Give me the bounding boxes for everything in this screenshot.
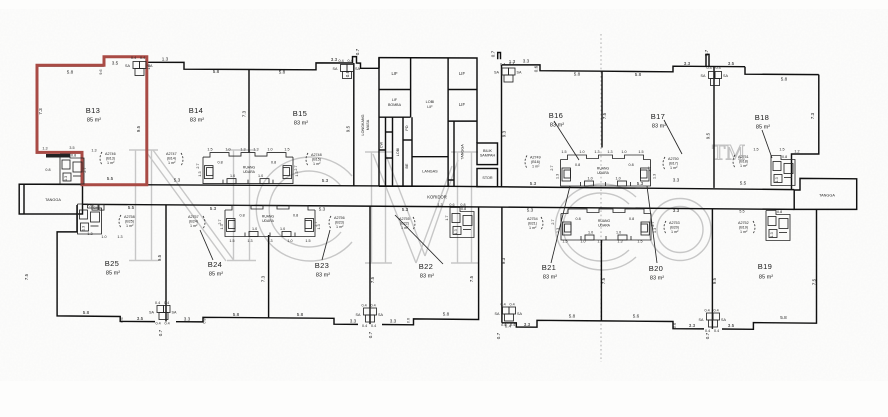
svg-text:5.8: 5.8 xyxy=(67,70,74,75)
label A2749 (B16) xyxy=(525,156,541,169)
right stair TANGGA xyxy=(794,178,857,209)
svg-text:9.5: 9.5 xyxy=(157,254,162,261)
svg-text:5.8: 5.8 xyxy=(233,312,240,317)
svg-text:9.5: 9.5 xyxy=(712,277,717,284)
leader B22 xyxy=(395,215,443,264)
svg-text:1 m²: 1 m² xyxy=(740,230,748,234)
leader B24 xyxy=(200,230,213,260)
core top outline xyxy=(379,58,477,143)
svg-text:5.8: 5.8 xyxy=(781,77,788,82)
svg-text:A2754: A2754 xyxy=(527,217,538,221)
svg-text:5.3: 5.3 xyxy=(322,178,329,183)
toilet cluster B25 xyxy=(78,204,102,234)
svg-text:1.3: 1.3 xyxy=(240,148,245,152)
svg-text:0.7: 0.7 xyxy=(491,50,496,57)
svg-text:1.3: 1.3 xyxy=(594,150,599,154)
SA shaft bottom wall B23/B22 xyxy=(356,304,384,329)
svg-text:UDARA: UDARA xyxy=(262,219,275,223)
svg-text:85 m²: 85 m² xyxy=(759,275,773,281)
svg-text:(B13): (B13) xyxy=(106,157,115,161)
svg-text:1.5: 1.5 xyxy=(779,148,784,152)
svg-text:83 m²: 83 m² xyxy=(294,121,308,127)
corridor top line xyxy=(20,184,794,189)
svg-text:1.0: 1.0 xyxy=(287,239,292,243)
svg-text:(B20): (B20) xyxy=(670,226,679,230)
leader lines xyxy=(200,120,772,264)
svg-text:(B24): (B24) xyxy=(189,220,198,224)
svg-text:0.4: 0.4 xyxy=(505,323,512,328)
svg-text:0.8: 0.8 xyxy=(45,168,50,172)
svg-text:1 m²: 1 m² xyxy=(168,161,176,165)
svg-text:5.8: 5.8 xyxy=(443,312,450,317)
toilet cluster shared B14-B15 xyxy=(198,153,299,184)
leader B17 xyxy=(664,120,682,154)
B17/B18 stub xyxy=(706,54,709,66)
svg-text:9.3: 9.3 xyxy=(502,130,507,137)
svg-text:3.3: 3.3 xyxy=(684,61,691,66)
toilet cluster B19 xyxy=(766,210,790,240)
door step B13 xyxy=(46,154,70,158)
svg-text:BOMBA: BOMBA xyxy=(388,103,402,107)
svg-text:A2749: A2749 xyxy=(530,156,541,160)
label A2753 (B20) xyxy=(664,221,680,234)
svg-text:1.0: 1.0 xyxy=(101,235,106,239)
svg-text:LOBI: LOBI xyxy=(396,148,400,156)
svg-text:0.8: 0.8 xyxy=(203,318,207,323)
svg-text:LIF: LIF xyxy=(459,71,465,76)
svg-text:5.3: 5.3 xyxy=(402,207,409,212)
svg-text:3.5: 3.5 xyxy=(69,146,74,150)
svg-text:0.8: 0.8 xyxy=(460,203,465,207)
svg-text:2.7: 2.7 xyxy=(83,167,87,172)
B23/B22 wall xyxy=(369,206,371,324)
svg-text:0.6: 0.6 xyxy=(407,318,411,323)
svg-text:9.5: 9.5 xyxy=(346,125,351,132)
wall B16/B17 xyxy=(601,71,603,147)
svg-text:(B16): (B16) xyxy=(531,160,540,164)
label A2752 (B19) xyxy=(738,221,755,234)
watermark letter o xyxy=(649,199,711,261)
svg-text:83 m²: 83 m² xyxy=(652,124,666,130)
svg-text:A2750: A2750 xyxy=(668,157,679,161)
SA shaft bottom wall B25/B24 xyxy=(149,301,177,326)
svg-text:1.0: 1.0 xyxy=(225,148,230,152)
svg-text:1.3: 1.3 xyxy=(617,240,622,244)
svg-text:2.7: 2.7 xyxy=(314,221,318,226)
leader B18 xyxy=(762,130,772,158)
svg-text:1.3: 1.3 xyxy=(607,150,612,154)
toilet cluster B13 xyxy=(60,154,84,184)
svg-text:1.5: 1.5 xyxy=(561,150,566,154)
svg-text:3.5: 3.5 xyxy=(137,316,144,321)
svg-text:3.3: 3.3 xyxy=(689,323,696,328)
svg-text:1.5: 1.5 xyxy=(638,150,643,154)
svg-text:UDARA: UDARA xyxy=(243,170,256,174)
svg-text:A2757: A2757 xyxy=(188,215,199,219)
leader B23 xyxy=(322,230,330,260)
svg-text:1.5: 1.5 xyxy=(637,240,642,244)
watermark letter C of Co xyxy=(555,184,636,270)
SA shaft bottom wall B20/B19 xyxy=(699,309,727,334)
svg-text:BE: BE xyxy=(405,163,409,168)
svg-text:5.5: 5.5 xyxy=(107,176,114,181)
svg-text:(B17): (B17) xyxy=(669,162,678,166)
svg-text:3.3: 3.3 xyxy=(523,58,530,63)
left stair TANGGA xyxy=(19,184,82,214)
scan noise texture xyxy=(0,40,888,350)
svg-text:1.5: 1.5 xyxy=(305,239,310,243)
svg-text:1.3: 1.3 xyxy=(117,235,122,239)
wall B17/B18 xyxy=(713,67,715,188)
svg-text:1.3: 1.3 xyxy=(87,232,92,236)
svg-text:B21: B21 xyxy=(542,263,556,272)
svg-text:1.3: 1.3 xyxy=(597,240,602,244)
svg-text:1 m²: 1 m² xyxy=(532,165,540,169)
svg-text:3.3: 3.3 xyxy=(673,178,680,183)
svg-text:0.7: 0.7 xyxy=(496,332,501,339)
svg-text:3.3: 3.3 xyxy=(673,208,680,213)
watermark NCM Co TM xyxy=(129,140,745,270)
svg-text:1.3: 1.3 xyxy=(162,56,169,61)
svg-text:3.3: 3.3 xyxy=(331,57,338,62)
svg-text:1.3: 1.3 xyxy=(42,147,47,151)
SA shaft top wall B16 xyxy=(494,63,522,83)
svg-text:0.6: 0.6 xyxy=(345,70,350,77)
svg-text:5.8: 5.8 xyxy=(213,69,220,74)
svg-text:TANGGA: TANGGA xyxy=(461,144,465,160)
svg-text:5.8: 5.8 xyxy=(780,315,787,320)
svg-text:1.3: 1.3 xyxy=(247,239,252,243)
svg-text:1 m²: 1 m² xyxy=(126,224,134,228)
svg-text:TANGGA: TANGGA xyxy=(819,194,835,198)
svg-text:1.3: 1.3 xyxy=(267,239,272,243)
svg-text:0.7: 0.7 xyxy=(368,331,373,338)
svg-text:3.3: 3.3 xyxy=(524,322,531,327)
svg-text:1.3: 1.3 xyxy=(437,203,442,207)
B25 outline xyxy=(57,205,155,322)
leader B21 xyxy=(551,186,570,263)
label A2747 (B14) xyxy=(166,152,183,166)
svg-text:RUANG: RUANG xyxy=(243,166,256,170)
B17 top outline xyxy=(602,66,745,72)
svg-text:UDARA: UDARA xyxy=(597,171,610,175)
svg-text:5.3: 5.3 xyxy=(530,181,537,186)
svg-text:1 m²: 1 m² xyxy=(670,166,678,170)
svg-text:LANGAS: LANGAS xyxy=(422,170,438,174)
svg-text:7.5: 7.5 xyxy=(24,273,29,280)
svg-text:1.5: 1.5 xyxy=(753,148,758,152)
label A2751 (B18) xyxy=(733,155,749,168)
svg-text:7.3: 7.3 xyxy=(810,112,815,119)
svg-text:1 m²: 1 m² xyxy=(671,230,679,234)
scan fold crease line xyxy=(600,34,602,362)
label A2750 (B17) xyxy=(663,157,679,170)
toilet cluster shared B16-B17 xyxy=(556,155,657,186)
svg-text:RUANG: RUANG xyxy=(598,219,611,223)
svg-text:2.7: 2.7 xyxy=(551,219,555,224)
wall B15 right xyxy=(353,63,355,186)
B24 bottom xyxy=(176,317,358,324)
svg-text:TANGGA: TANGGA xyxy=(45,198,61,202)
B21 bottom left step xyxy=(502,320,602,327)
svg-text:LIF: LIF xyxy=(427,105,433,109)
label A2758 (B25) xyxy=(119,215,135,228)
svg-text:B19: B19 xyxy=(758,262,772,271)
svg-text:B20: B20 xyxy=(649,264,663,273)
svg-text:1 m²: 1 m² xyxy=(336,225,344,229)
svg-text:(B23): (B23) xyxy=(335,221,344,225)
svg-text:0.7: 0.7 xyxy=(705,332,710,339)
svg-text:85 m²: 85 m² xyxy=(756,125,770,131)
svg-text:A2756: A2756 xyxy=(334,216,345,220)
svg-text:SAMPAH: SAMPAH xyxy=(480,154,496,158)
svg-text:1.6: 1.6 xyxy=(147,64,151,69)
svg-text:9.5: 9.5 xyxy=(706,132,711,139)
SA shaft top wall B13/B14 xyxy=(125,56,153,76)
B18 right edge xyxy=(792,75,819,190)
wall B16 left xyxy=(501,65,503,187)
svg-text:1.2: 1.2 xyxy=(794,150,799,154)
svg-text:CH: CH xyxy=(93,206,99,210)
svg-text:2.7: 2.7 xyxy=(550,165,554,170)
svg-text:1.3: 1.3 xyxy=(91,149,96,153)
svg-text:(B19): (B19) xyxy=(739,226,748,230)
label A2754 (B21) xyxy=(527,217,543,230)
corridor bottom line xyxy=(83,204,795,209)
label A2756 (B23) xyxy=(329,216,345,229)
watermark letter N xyxy=(129,150,256,261)
watermark letter M xyxy=(365,152,478,263)
svg-text:B25: B25 xyxy=(105,259,119,268)
svg-text:(B25): (B25) xyxy=(125,220,134,224)
svg-text:5.6: 5.6 xyxy=(633,314,640,319)
svg-text:UDARA: UDARA xyxy=(598,224,611,228)
svg-text:5.8: 5.8 xyxy=(569,313,576,318)
bilik sampah / stor boxes xyxy=(477,143,498,187)
svg-text:5.3: 5.3 xyxy=(319,207,326,212)
B21/B20 wall xyxy=(600,240,602,321)
svg-text:CW: CW xyxy=(380,141,384,148)
svg-text:3.3: 3.3 xyxy=(184,316,191,321)
svg-text:A2758: A2758 xyxy=(124,215,135,219)
top outline B14-B15 xyxy=(147,57,380,70)
SA shaft top wall B15 xyxy=(333,59,361,79)
svg-text:7.3: 7.3 xyxy=(242,110,247,117)
svg-text:9.6: 9.6 xyxy=(99,69,103,74)
B22 bottom xyxy=(382,207,479,325)
svg-text:B17: B17 xyxy=(651,112,665,121)
svg-text:A2752: A2752 xyxy=(738,221,749,225)
svg-text:LIF: LIF xyxy=(459,102,465,107)
svg-text:1.5: 1.5 xyxy=(207,148,212,152)
lift core cells xyxy=(379,58,477,187)
svg-text:B13: B13 xyxy=(86,106,100,115)
svg-text:2.7: 2.7 xyxy=(218,219,222,224)
svg-text:1.5: 1.5 xyxy=(229,239,234,243)
svg-text:5.3: 5.3 xyxy=(174,178,181,183)
svg-text:B23: B23 xyxy=(315,261,329,270)
svg-text:1.0: 1.0 xyxy=(579,150,584,154)
svg-text:83 m²: 83 m² xyxy=(550,123,564,129)
RUANG UDARA texts xyxy=(243,166,611,228)
svg-text:83 m²: 83 m² xyxy=(190,118,204,124)
toilet cluster B18 xyxy=(771,155,795,185)
label A2746 (B13) xyxy=(100,152,116,165)
svg-text:1.0: 1.0 xyxy=(621,150,626,154)
svg-text:0.6: 0.6 xyxy=(120,317,124,322)
svg-text:1.5: 1.5 xyxy=(562,240,567,244)
svg-text:83 m²: 83 m² xyxy=(650,276,664,282)
svg-text:5.3: 5.3 xyxy=(527,208,534,213)
svg-text:1 m²: 1 m² xyxy=(190,224,198,228)
svg-text:3.5: 3.5 xyxy=(728,323,735,328)
svg-text:5.5: 5.5 xyxy=(739,210,744,214)
svg-text:7.5: 7.5 xyxy=(602,112,607,119)
core left wall xyxy=(378,58,380,187)
svg-text:B16: B16 xyxy=(549,111,563,120)
svg-text:PD: PD xyxy=(405,125,409,130)
svg-text:1 m²: 1 m² xyxy=(107,161,115,165)
label A2748 (B15) xyxy=(306,153,322,166)
svg-text:5.8: 5.8 xyxy=(279,70,286,75)
svg-text:3.7: 3.7 xyxy=(648,166,652,171)
B20/B19 wall xyxy=(711,209,713,329)
leader B16 xyxy=(554,121,579,160)
svg-text:2.7: 2.7 xyxy=(294,165,298,170)
svg-text:3.3: 3.3 xyxy=(350,319,357,324)
SA shaft bottom wall B21 xyxy=(495,303,523,328)
label A2755 (B22) xyxy=(399,217,415,230)
svg-text:(B14): (B14) xyxy=(167,157,176,161)
svg-text:83 m²: 83 m² xyxy=(543,275,557,281)
svg-text:0.6: 0.6 xyxy=(534,65,539,72)
svg-text:85 m²: 85 m² xyxy=(87,118,101,124)
unit B13 black underlay xyxy=(36,57,146,185)
svg-text:1.0: 1.0 xyxy=(267,148,272,152)
svg-text:(B15): (B15) xyxy=(312,158,321,162)
svg-text:5.8: 5.8 xyxy=(635,72,642,77)
svg-text:1.3: 1.3 xyxy=(509,59,516,64)
B24/B23 wall xyxy=(268,235,270,318)
svg-text:5.5: 5.5 xyxy=(740,181,747,186)
svg-text:B15: B15 xyxy=(293,109,307,118)
B25/B24 wall xyxy=(165,205,167,322)
svg-text:5.8: 5.8 xyxy=(297,312,304,317)
svg-text:7.5: 7.5 xyxy=(370,276,375,283)
svg-text:9.3: 9.3 xyxy=(501,257,506,264)
svg-text:2.7: 2.7 xyxy=(196,163,200,168)
svg-text:(B18): (B18) xyxy=(739,160,748,164)
B21 left wall xyxy=(501,207,503,323)
svg-text:0.7: 0.7 xyxy=(704,49,709,56)
svg-text:9.5: 9.5 xyxy=(136,125,141,132)
svg-text:MASA: MASA xyxy=(366,119,370,130)
B20 bottom xyxy=(601,321,704,329)
svg-text:A2753: A2753 xyxy=(669,221,680,225)
CH boxes above B25 cluster xyxy=(92,205,104,211)
svg-text:B18: B18 xyxy=(755,113,769,122)
svg-text:B14: B14 xyxy=(189,106,203,115)
svg-text:LONGKANG: LONGKANG xyxy=(361,114,365,135)
svg-text:0.7: 0.7 xyxy=(355,48,360,55)
svg-text:1.5: 1.5 xyxy=(284,148,289,152)
svg-text:LIF: LIF xyxy=(392,98,398,102)
svg-text:KORIDOR: KORIDOR xyxy=(427,194,447,199)
toilet cluster shared B24-B23 xyxy=(220,206,321,237)
svg-text:B22: B22 xyxy=(419,262,433,271)
svg-text:STOR: STOR xyxy=(482,176,493,180)
svg-text:7.5: 7.5 xyxy=(812,278,817,285)
svg-text:A2746: A2746 xyxy=(105,152,116,156)
svg-text:(B21): (B21) xyxy=(528,222,537,226)
leader B20 xyxy=(647,186,657,263)
toilet cluster shared B21-B20 xyxy=(556,209,657,240)
tiny dim rows above/below shared clusters xyxy=(42,64,799,328)
svg-text:A2748: A2748 xyxy=(311,153,322,157)
svg-text:7.5: 7.5 xyxy=(469,275,474,282)
svg-text:B24: B24 xyxy=(208,260,222,269)
svg-text:5.8: 5.8 xyxy=(83,310,90,315)
wall B14/B15 xyxy=(248,69,250,152)
SA shaft top wall B17/B18 xyxy=(701,66,729,86)
svg-text:7.5: 7.5 xyxy=(601,277,606,284)
svg-text:1.0: 1.0 xyxy=(580,240,585,244)
svg-text:85 m²: 85 m² xyxy=(106,271,120,277)
B19 bottom xyxy=(722,210,817,330)
svg-text:3.5: 3.5 xyxy=(112,61,119,66)
svg-text:RUANG: RUANG xyxy=(597,167,610,171)
svg-text:3.5: 3.5 xyxy=(728,61,735,66)
svg-text:0.6: 0.6 xyxy=(449,203,454,207)
svg-text:7.3: 7.3 xyxy=(261,275,266,282)
svg-text:1.7: 1.7 xyxy=(445,215,449,220)
svg-text:RUANG: RUANG xyxy=(262,215,275,219)
unit B13 red outline xyxy=(37,57,147,185)
svg-text:1 m²: 1 m² xyxy=(313,162,321,166)
svg-text:5.3: 5.3 xyxy=(637,181,644,186)
B16 top outline xyxy=(498,53,501,60)
svg-text:A2747: A2747 xyxy=(166,152,177,156)
B18 top outline xyxy=(745,67,819,75)
svg-text:5.8: 5.8 xyxy=(574,72,581,77)
toilet cluster B22 xyxy=(450,207,474,237)
svg-text:3.3: 3.3 xyxy=(390,319,397,324)
svg-text:LIF: LIF xyxy=(391,71,397,76)
svg-text:A2751: A2751 xyxy=(738,155,749,159)
watermark letter C xyxy=(256,157,352,261)
svg-text:0.7: 0.7 xyxy=(158,329,163,336)
svg-text:0.6: 0.6 xyxy=(673,323,677,328)
svg-text:2.7: 2.7 xyxy=(651,221,655,226)
wall B13/B14 xyxy=(146,57,148,185)
svg-text:5.3: 5.3 xyxy=(210,206,217,211)
svg-text:BILIK: BILIK xyxy=(483,149,493,153)
svg-text:1 m²: 1 m² xyxy=(740,164,748,168)
svg-text:1 m²: 1 m² xyxy=(529,226,537,230)
svg-text:85 m²: 85 m² xyxy=(209,272,223,278)
svg-text:83 m²: 83 m² xyxy=(420,274,434,280)
label A2757 (B24) xyxy=(188,215,205,229)
svg-text:5.5: 5.5 xyxy=(128,205,135,210)
svg-text:1.3: 1.3 xyxy=(253,148,258,152)
svg-text:7.3: 7.3 xyxy=(38,108,43,115)
svg-text:83 m²: 83 m² xyxy=(316,273,330,279)
svg-text:LOBI: LOBI xyxy=(426,100,435,104)
